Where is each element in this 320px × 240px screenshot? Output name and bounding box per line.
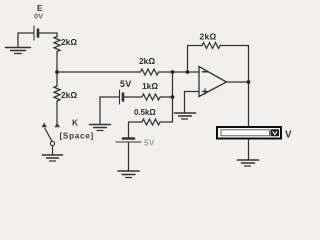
- svg-text:K: K: [72, 118, 78, 128]
- svg-text:5V: 5V: [144, 139, 155, 148]
- svg-text:V: V: [285, 130, 292, 141]
- svg-text:2kΩ: 2kΩ: [61, 90, 77, 100]
- svg-text:[Space]: [Space]: [60, 132, 94, 141]
- svg-text:2kΩ: 2kΩ: [61, 37, 77, 47]
- svg-text:5V: 5V: [120, 79, 132, 89]
- svg-text:1kΩ: 1kΩ: [142, 81, 158, 91]
- svg-text:0.5kΩ: 0.5kΩ: [134, 108, 156, 117]
- svg-text:0V: 0V: [34, 12, 43, 21]
- svg-text:2kΩ: 2kΩ: [139, 56, 155, 66]
- svg-text:2kΩ: 2kΩ: [200, 32, 217, 42]
